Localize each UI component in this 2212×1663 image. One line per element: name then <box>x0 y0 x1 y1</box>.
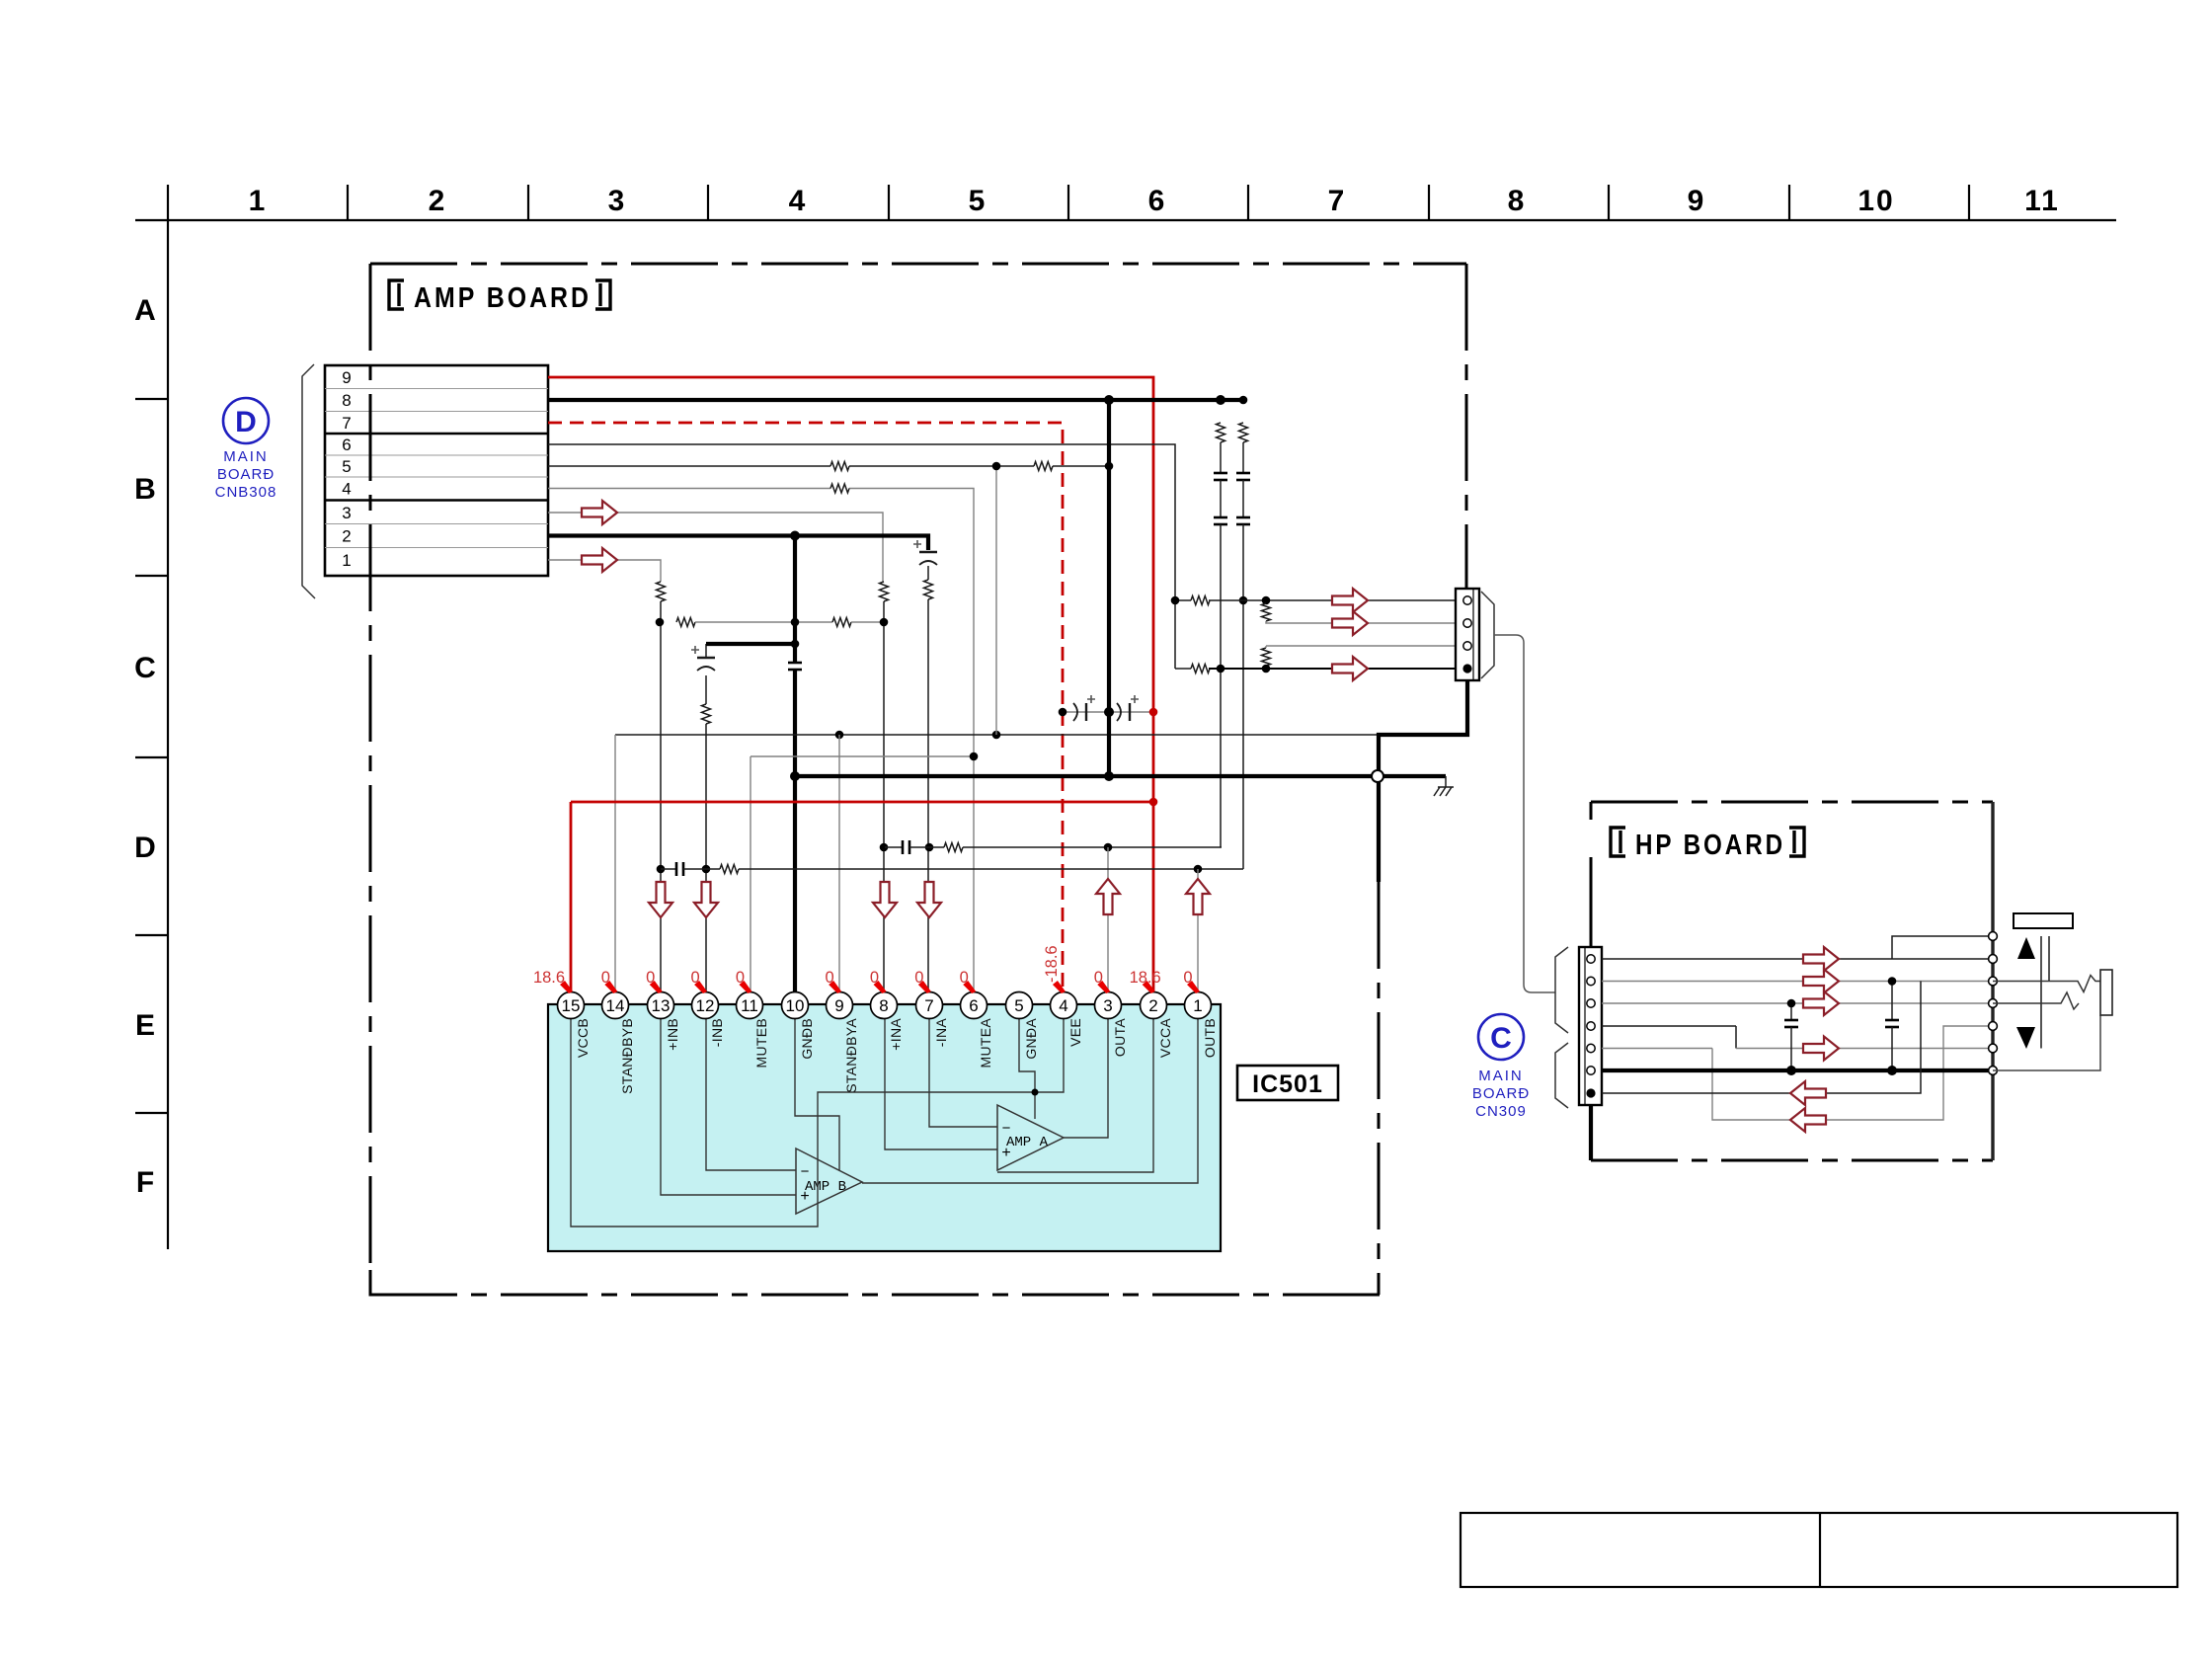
svg-text:MAIN: MAIN <box>1478 1068 1524 1084</box>
junction feedback OUTA <box>1104 843 1113 852</box>
connector SP pin 4 <box>1462 664 1471 673</box>
arrow HP out2 <box>1803 970 1839 993</box>
pin 10 circle <box>782 992 809 1019</box>
svg-text:+INB: +INB <box>665 1018 680 1051</box>
junction decouple GND <box>1104 707 1114 717</box>
arrow HP in2 <box>1790 1108 1826 1132</box>
junction HP cap2 bot <box>1887 1066 1897 1075</box>
junction chain B spk <box>1239 596 1248 605</box>
svg-text:STANÐBYB: STANÐBYB <box>619 1018 635 1094</box>
resistor bias A <box>832 618 851 627</box>
connector D callout circle <box>223 398 269 443</box>
svg-text:VCCA: VCCA <box>1157 1018 1173 1058</box>
pin 8 circle <box>871 992 898 1019</box>
wire -INA column <box>927 599 929 992</box>
wire decouple <box>1063 711 1153 713</box>
connector CN309 body <box>1579 947 1602 1105</box>
svg-text:0: 0 <box>601 969 610 987</box>
pin 4 circle <box>1051 992 1077 1019</box>
svg-text:3: 3 <box>342 504 351 522</box>
wire VCCB internal <box>571 1017 818 1227</box>
jack contact 4 <box>1989 999 1998 1008</box>
wire pin1 input B <box>548 560 661 582</box>
pin 13 circle <box>648 992 674 1019</box>
jack inner line 2 <box>2048 936 2050 982</box>
svg-text:OUTA: OUTA <box>1112 1018 1128 1057</box>
svg-text:11: 11 <box>2024 185 2060 217</box>
wire chain A c-c <box>1220 480 1222 517</box>
wire VCC rail red <box>571 801 1153 804</box>
wire SP to HP board <box>1494 635 1555 992</box>
connector CN309 bracket lower <box>1555 1043 1568 1108</box>
wire GNDB column upper thick <box>793 536 797 664</box>
svg-text:F: F <box>136 1166 154 1199</box>
border ruler left line <box>167 185 169 1249</box>
wire -INB top link <box>705 644 707 658</box>
connector CNB308 bracket <box>302 364 315 598</box>
wire pin4 mute segment 2 <box>849 489 974 993</box>
wire speaker out1 b <box>1209 599 1456 601</box>
IC501 label <box>1237 1066 1338 1100</box>
wire pin6 speaker return <box>548 444 1175 669</box>
wire +INB column <box>660 601 662 992</box>
wire VEE internal <box>818 1017 1064 1214</box>
junction mute <box>970 752 979 761</box>
wire -INA internal <box>929 1017 997 1127</box>
svg-text:7: 7 <box>342 414 351 433</box>
pin 5 circle <box>1006 992 1033 1019</box>
connector CN309 pin 2 <box>1587 977 1595 985</box>
svg-text:4: 4 <box>1059 996 1067 1015</box>
wire bias line B <box>695 621 832 623</box>
svg-text:-INA: -INA <box>933 1018 949 1048</box>
resistor spk1 <box>1191 596 1210 605</box>
jack contact 5 <box>1989 1022 1998 1031</box>
svg-text:D: D <box>134 831 156 864</box>
junction HP cap2 top <box>1888 977 1897 986</box>
pin 11 circle <box>737 992 763 1019</box>
wire GNDB column lower thick <box>793 670 797 992</box>
svg-text:18.6: 18.6 <box>533 969 565 987</box>
wire chain A r-c <box>1220 442 1222 473</box>
arrow spk4 <box>1332 657 1368 680</box>
AMP BOARD border right edge lower <box>1378 882 1381 1295</box>
junction chain A spk <box>1217 665 1225 673</box>
resistor feedback B <box>720 865 739 874</box>
wire MUTEB line <box>750 755 974 757</box>
arrow +INB down <box>649 882 672 917</box>
svg-text:IC501: IC501 <box>1252 1070 1323 1098</box>
svg-text:5: 5 <box>342 457 351 476</box>
wire -INB cap-res link <box>705 675 707 704</box>
pin 14 red tick <box>604 981 617 993</box>
wire pin3 input A <box>548 513 883 582</box>
junction +INB bias <box>656 618 665 627</box>
pin 1 red tick <box>1187 981 1200 993</box>
svg-text:VEE: VEE <box>1067 1018 1083 1047</box>
connector SP bracket <box>1481 592 1494 678</box>
resistor spk divider 2 <box>1262 648 1271 666</box>
junction decouple VCC <box>1149 708 1158 717</box>
wire chain A lower <box>1220 524 1222 847</box>
jack contact 3 <box>1989 977 1998 986</box>
junction 1123 472 <box>1105 462 1114 471</box>
junction -INB fb <box>702 865 711 874</box>
wire GNDA internal <box>1019 1017 1035 1119</box>
svg-text:MUTEB: MUTEB <box>753 1018 769 1069</box>
pin 4 red tick <box>1053 981 1066 993</box>
resistor bias B <box>676 618 695 627</box>
resistor spk divider 1 <box>1262 603 1271 621</box>
connector CN309 pin 1 <box>1587 955 1595 963</box>
jack barrel <box>2100 970 2112 1015</box>
arrow HP out3 <box>1803 991 1839 1015</box>
capacitor VEE-GND electrolytic <box>1073 703 1077 721</box>
svg-text:0: 0 <box>1183 969 1192 987</box>
wire STANDBYB column <box>614 735 616 992</box>
wire chain B lower <box>1242 524 1244 869</box>
wire standby drop <box>995 466 997 735</box>
arrow OUTB up <box>1186 879 1210 914</box>
svg-text:2: 2 <box>342 527 351 546</box>
svg-text:10: 10 <box>1857 185 1894 217</box>
capacitor -INA electrolytic <box>919 551 937 553</box>
capacitor feedback B <box>675 862 678 876</box>
wire spk2 <box>1266 621 1456 623</box>
arrow HP out5 <box>1803 1037 1839 1061</box>
wire pin5 standby segment 3 <box>1053 465 1109 467</box>
svg-text:GNÐB: GNÐB <box>799 1018 815 1060</box>
resistor pin5-a <box>830 462 849 471</box>
connector CN309 bracket upper <box>1555 947 1568 1033</box>
svg-text:A: A <box>134 294 156 327</box>
pin 1 circle <box>1185 992 1212 1019</box>
svg-text:STANÐBYA: STANÐBYA <box>843 1018 859 1093</box>
svg-text:C: C <box>134 652 156 684</box>
svg-text:VCCB: VCCB <box>575 1018 591 1058</box>
wire HP line4 step <box>1735 1026 1737 1049</box>
svg-text:10: 10 <box>786 996 805 1015</box>
pin 13 red tick <box>650 981 663 993</box>
pin 9 red tick <box>829 981 841 993</box>
wire CN309 exit thick <box>1589 1105 1593 1160</box>
connector C callout circle <box>1478 1014 1524 1060</box>
pin 14 circle <box>602 992 629 1019</box>
svg-text:HP BOARD: HP BOARD <box>1635 830 1785 861</box>
svg-text:7: 7 <box>1328 185 1347 217</box>
jack contact 6 <box>1989 1044 1998 1053</box>
ruler column numbers <box>249 185 2060 217</box>
wire pin5 standby segment 2 <box>849 465 1034 467</box>
arrow input A <box>582 501 617 524</box>
ruler row ticks <box>135 399 168 1113</box>
svg-text:+: + <box>1001 1145 1010 1161</box>
junction -INA fb <box>925 843 934 852</box>
junction feedback OUTB <box>1194 865 1203 874</box>
arrow HP out1 <box>1803 947 1839 971</box>
svg-text:0: 0 <box>736 969 745 987</box>
svg-text:12: 12 <box>696 996 715 1015</box>
svg-text:5: 5 <box>1014 996 1023 1015</box>
svg-text:0: 0 <box>960 969 969 987</box>
svg-text:AMP BOARD: AMP BOARD <box>414 282 592 314</box>
jack spring ring <box>1993 992 2079 1009</box>
svg-text:6: 6 <box>1148 185 1167 217</box>
resistor +INB top <box>657 582 666 601</box>
op-amp AMP B <box>796 1148 862 1214</box>
headphone jack body line <box>1991 802 1994 1160</box>
connector CN309 pin 3 <box>1587 999 1595 1007</box>
svg-text:4: 4 <box>789 185 808 217</box>
junction VEE internal <box>1032 1089 1039 1096</box>
wire HP line5 right <box>1736 1048 1993 1050</box>
svg-text:9: 9 <box>1688 185 1706 217</box>
wire +INA column <box>883 601 885 992</box>
capacitor chain A lower <box>1214 516 1227 519</box>
HP BOARD border top <box>1591 801 1993 804</box>
pin 8 red tick <box>873 981 886 993</box>
svg-text:13: 13 <box>652 996 671 1015</box>
pin 3 circle <box>1095 992 1122 1019</box>
resistor feedback A <box>944 843 963 852</box>
wire feedback A mid <box>909 846 944 848</box>
capacitor HP 1814 <box>1790 1003 1792 1020</box>
wire -INB internal <box>706 1017 796 1170</box>
svg-text:2: 2 <box>1148 996 1157 1015</box>
junction GNDB bus <box>790 771 800 781</box>
resistor spk4 <box>1191 665 1210 673</box>
pin 6 circle <box>961 992 987 1019</box>
wire OUTA column upper <box>1107 847 1109 992</box>
junction +INB feedback <box>657 865 666 874</box>
capacitor chain B upper <box>1236 472 1250 475</box>
arrow OUTA up <box>1096 879 1120 914</box>
svg-text:C: C <box>1490 1022 1512 1055</box>
wire GND column 1123 thick <box>1107 400 1111 776</box>
pin 2 red tick <box>1143 981 1155 993</box>
AMP BOARD border bottom edge <box>370 1294 1379 1297</box>
arrow -INB down <box>694 882 718 917</box>
svg-text:B: B <box>134 473 156 506</box>
resistor pin5-b <box>1034 462 1053 471</box>
resistor +INA top <box>880 582 889 601</box>
wire VCCB drop red <box>570 802 573 992</box>
wire -INB column <box>705 724 707 992</box>
wire spk3 stub <box>1265 646 1267 648</box>
wire feedback A <box>885 846 903 848</box>
ruler row letters <box>134 294 156 1199</box>
capacitor HP 1916 <box>1891 982 1893 1021</box>
svg-text:0: 0 <box>646 969 655 987</box>
svg-text:−: − <box>801 1163 810 1180</box>
capacitor chain B lower <box>1236 516 1250 519</box>
capacitor feedback A <box>902 840 905 854</box>
svg-text:8: 8 <box>1508 185 1527 217</box>
svg-text:14: 14 <box>606 996 625 1015</box>
connector CN309 pin 6 <box>1587 1067 1595 1074</box>
connector SP pin 1 <box>1463 596 1471 604</box>
wire OUTB column upper <box>1197 869 1199 992</box>
junction standby-1009 <box>992 731 1001 740</box>
junction spk4 1282 <box>1262 665 1271 673</box>
wire speaker out1 <box>1175 599 1191 601</box>
pin 6 red tick <box>963 981 976 993</box>
connector SP body <box>1456 589 1479 680</box>
ruler column ticks <box>348 185 1969 220</box>
wire pin8 GND thick <box>548 398 1243 402</box>
svg-text:8: 8 <box>342 391 351 410</box>
junction standby-472 <box>992 462 1001 471</box>
svg-text:3: 3 <box>1103 996 1112 1015</box>
jack tip contact triangle <box>2017 937 2035 959</box>
wire pin5 standby <box>548 465 830 467</box>
wire feedback A right <box>963 846 1222 848</box>
IC501 body <box>548 1004 1221 1251</box>
wire HP R out <box>1602 981 1993 983</box>
pin 15 circle <box>558 992 585 1019</box>
HP BOARD border bottom <box>1591 1159 1993 1162</box>
svg-text:CNB308: CNB308 <box>215 484 277 501</box>
title block <box>1461 1513 2177 1587</box>
junction STANDBYA <box>835 731 844 740</box>
connector CNB308 pin numbers <box>342 368 351 570</box>
wire SP pin4 exit thick <box>1379 680 1467 882</box>
svg-text:0: 0 <box>1094 969 1103 987</box>
svg-text:CN309: CN309 <box>1475 1103 1527 1120</box>
wire +INA internal <box>885 1017 997 1149</box>
AMP BOARD border corner patch 2 <box>1355 1294 1380 1297</box>
junction GNDB 542 <box>790 531 800 541</box>
svg-text:9: 9 <box>834 996 843 1015</box>
jack sleeve <box>1993 1015 2100 1070</box>
wire GND bus thick <box>795 774 1446 778</box>
svg-text:7: 7 <box>924 996 933 1015</box>
connector SP pin 3 <box>1463 642 1471 650</box>
connector CNB308 body <box>325 365 548 576</box>
jack ring contact triangle <box>2016 1027 2035 1049</box>
AMP BOARD border top edge <box>370 263 1466 266</box>
node GND exit <box>1372 770 1383 782</box>
wire standby line <box>615 734 1379 736</box>
wire pin4 mute <box>548 488 830 490</box>
HP BOARD border left lower <box>1589 1104 1592 1160</box>
pin 3 red tick <box>1097 981 1110 993</box>
connector CN309 pin 5 <box>1587 1044 1595 1052</box>
svg-text:1: 1 <box>342 551 351 570</box>
wire GNDB link thick <box>706 642 795 646</box>
svg-text:2: 2 <box>429 185 447 217</box>
wire HP GND thick <box>1602 1069 1993 1072</box>
ground chassis <box>1434 787 1454 796</box>
jack label box <box>2014 913 2073 928</box>
pin 12 circle <box>692 992 719 1019</box>
svg-text:11: 11 <box>741 996 758 1015</box>
arrow +INA down <box>873 882 897 917</box>
pin 12 red tick <box>694 981 707 993</box>
arrow spk2 <box>1332 611 1368 635</box>
svg-text:D: D <box>235 406 257 438</box>
svg-text:AMP B: AMP B <box>805 1179 846 1195</box>
junction bias GNDB <box>791 618 800 627</box>
junction 1123 top <box>1104 395 1114 405</box>
arrow HP in1 <box>1790 1081 1826 1105</box>
resistor -INA <box>924 580 933 599</box>
svg-text:MAIN: MAIN <box>223 448 269 465</box>
wire speaker out4 b <box>1209 668 1456 670</box>
wire HP line7 <box>1602 982 1921 1094</box>
svg-text:-INB: -INB <box>709 1018 725 1047</box>
svg-text:8: 8 <box>879 996 888 1015</box>
resistor chain A <box>1217 423 1225 442</box>
wire VCCA internal <box>997 1017 1153 1172</box>
capacitor chain A upper <box>1214 472 1227 475</box>
wire ground stub <box>1445 776 1447 787</box>
pin 15 red tick <box>560 981 573 993</box>
svg-text:9: 9 <box>342 368 351 387</box>
wire STANDBYA column <box>838 735 840 992</box>
op-amp AMP A <box>997 1105 1064 1170</box>
wire speaker out4 <box>1175 668 1191 670</box>
svg-text:0: 0 <box>690 969 699 987</box>
pin 9 circle <box>827 992 853 1019</box>
svg-text:4: 4 <box>342 480 351 499</box>
arrow -INA down <box>917 882 941 917</box>
AMP BOARD label <box>389 280 610 314</box>
svg-text:0: 0 <box>870 969 879 987</box>
resistor -INB <box>702 704 711 724</box>
svg-text:AMP A: AMP A <box>1006 1135 1049 1150</box>
wire chain B c-c <box>1242 480 1244 517</box>
wire HP line3 <box>1602 1002 1993 1004</box>
wire feedback B <box>661 868 676 870</box>
capacitor GNDB series <box>788 662 802 665</box>
connector CN309 pin 4 <box>1587 1022 1595 1030</box>
junction chain B top <box>1239 396 1248 405</box>
pin 7 red tick <box>918 981 931 993</box>
svg-text:+: + <box>800 1188 809 1205</box>
jack inner line 1 <box>2040 936 2042 1049</box>
junction +INA bias <box>880 618 889 627</box>
jack contact 7 <box>1989 1067 1998 1075</box>
junction chain A top <box>1217 396 1225 405</box>
svg-text:BOARÐ: BOARÐ <box>1472 1085 1530 1102</box>
wire -INA cap-res link <box>927 566 929 580</box>
svg-text:OUTB: OUTB <box>1202 1018 1218 1058</box>
HP BOARD label <box>1611 828 1804 861</box>
junction decouple VEE <box>1059 708 1067 717</box>
svg-text:MUTEA: MUTEA <box>978 1018 993 1069</box>
wire OUTB internal <box>862 1017 1198 1183</box>
capacitor -INB electrolytic <box>697 657 715 659</box>
svg-text:−: − <box>1002 1120 1011 1137</box>
arrow spk1 <box>1332 589 1368 612</box>
wire HP line5 left <box>1602 1048 1712 1050</box>
resistor chain B <box>1239 423 1248 442</box>
junction chainA top2 <box>1216 395 1225 405</box>
svg-text:3: 3 <box>608 185 627 217</box>
junction GNDB 652 <box>791 640 800 649</box>
arrow input B <box>582 548 617 572</box>
wire spk3 <box>1266 645 1456 647</box>
svg-text:5: 5 <box>969 185 987 217</box>
wire feedback B right <box>739 868 1243 870</box>
pin 7 circle <box>916 992 943 1019</box>
wire chain B r-c <box>1242 442 1244 473</box>
wire HP detour low <box>1712 1026 1993 1120</box>
jack contact 1 <box>1989 932 1998 941</box>
wire bias line A <box>851 621 884 623</box>
AMP BOARD border corner patch 1 <box>369 1270 372 1297</box>
